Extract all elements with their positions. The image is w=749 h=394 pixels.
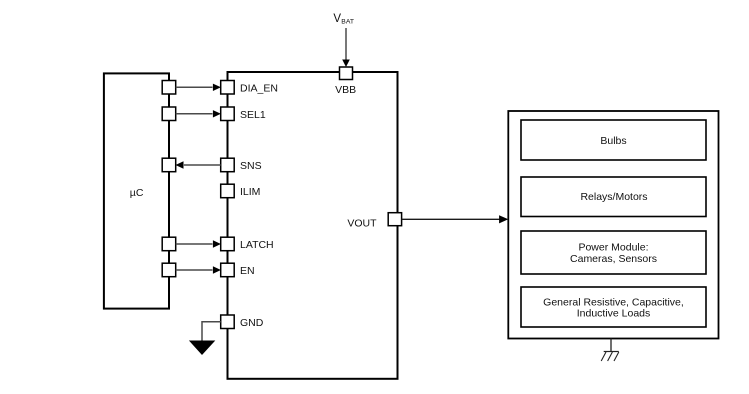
wire uC to LATCH with arrow: [176, 240, 221, 247]
svg-text:SEL1: SEL1: [240, 109, 266, 121]
load box Relays/Motors: [521, 177, 706, 217]
ground: [189, 341, 215, 356]
pin ILIM: [221, 184, 235, 198]
svg-text:ILIM: ILIM: [240, 186, 260, 198]
pin GND: [221, 315, 235, 329]
svg-text:VBB: VBB: [335, 84, 356, 96]
load box Power Module: [521, 231, 706, 274]
wire VOUT to loads with arrow: [402, 215, 509, 223]
node V_BAT: [333, 13, 354, 26]
pin box uC row4: [162, 237, 176, 251]
svg-text:Cameras, Sensors: Cameras, Sensors: [570, 253, 657, 265]
pin box uC row1: [162, 81, 176, 95]
svg-text:Relays/Motors: Relays/Motors: [580, 191, 647, 203]
pin EN: [221, 263, 235, 277]
svg-text:VOUT: VOUT: [347, 217, 377, 229]
svg-text:SNS: SNS: [240, 160, 262, 172]
wire GND to ground: [202, 322, 221, 341]
svg-text:V: V: [333, 13, 341, 25]
chassis ground: [601, 339, 619, 362]
label Power Module: Cameras, Sensors: [570, 241, 657, 265]
svg-text:GND: GND: [240, 317, 264, 329]
svg-text:Power Module:: Power Module:: [578, 241, 648, 253]
wire V_BAT to VBB with arrow: [342, 28, 350, 67]
svg-text:Inductive Loads: Inductive Loads: [577, 307, 651, 319]
pin SNS: [221, 158, 235, 172]
loads block: [508, 111, 718, 339]
pin box uC row2: [162, 107, 176, 121]
pin VBB: [340, 67, 353, 80]
pin box uC row5: [162, 263, 176, 277]
svg-text:BAT: BAT: [341, 19, 354, 26]
svg-text:µC: µC: [130, 187, 144, 199]
wire SNS to uC with arrow: [176, 161, 221, 168]
wire uC to SEL1 with arrow: [176, 110, 221, 117]
load box General Loads: [521, 287, 706, 327]
pin VOUT: [388, 213, 401, 226]
pin box uC row3: [162, 158, 176, 172]
load box Bulbs: [521, 120, 706, 160]
svg-text:EN: EN: [240, 265, 255, 277]
main device block U1: [228, 72, 398, 379]
label General Resistive, Capacitive, Inductive Loads: [543, 296, 684, 319]
microcontroller block uC: [104, 73, 169, 308]
wire uC to EN with arrow: [176, 266, 221, 273]
pin SEL1: [221, 107, 235, 121]
wire uC to DIA_EN with arrow: [176, 84, 221, 91]
svg-text:Bulbs: Bulbs: [600, 135, 626, 147]
pin DIA_EN: [221, 81, 235, 95]
svg-text:LATCH: LATCH: [240, 239, 274, 251]
pin LATCH: [221, 237, 235, 251]
svg-text:DIA_EN: DIA_EN: [240, 83, 278, 95]
